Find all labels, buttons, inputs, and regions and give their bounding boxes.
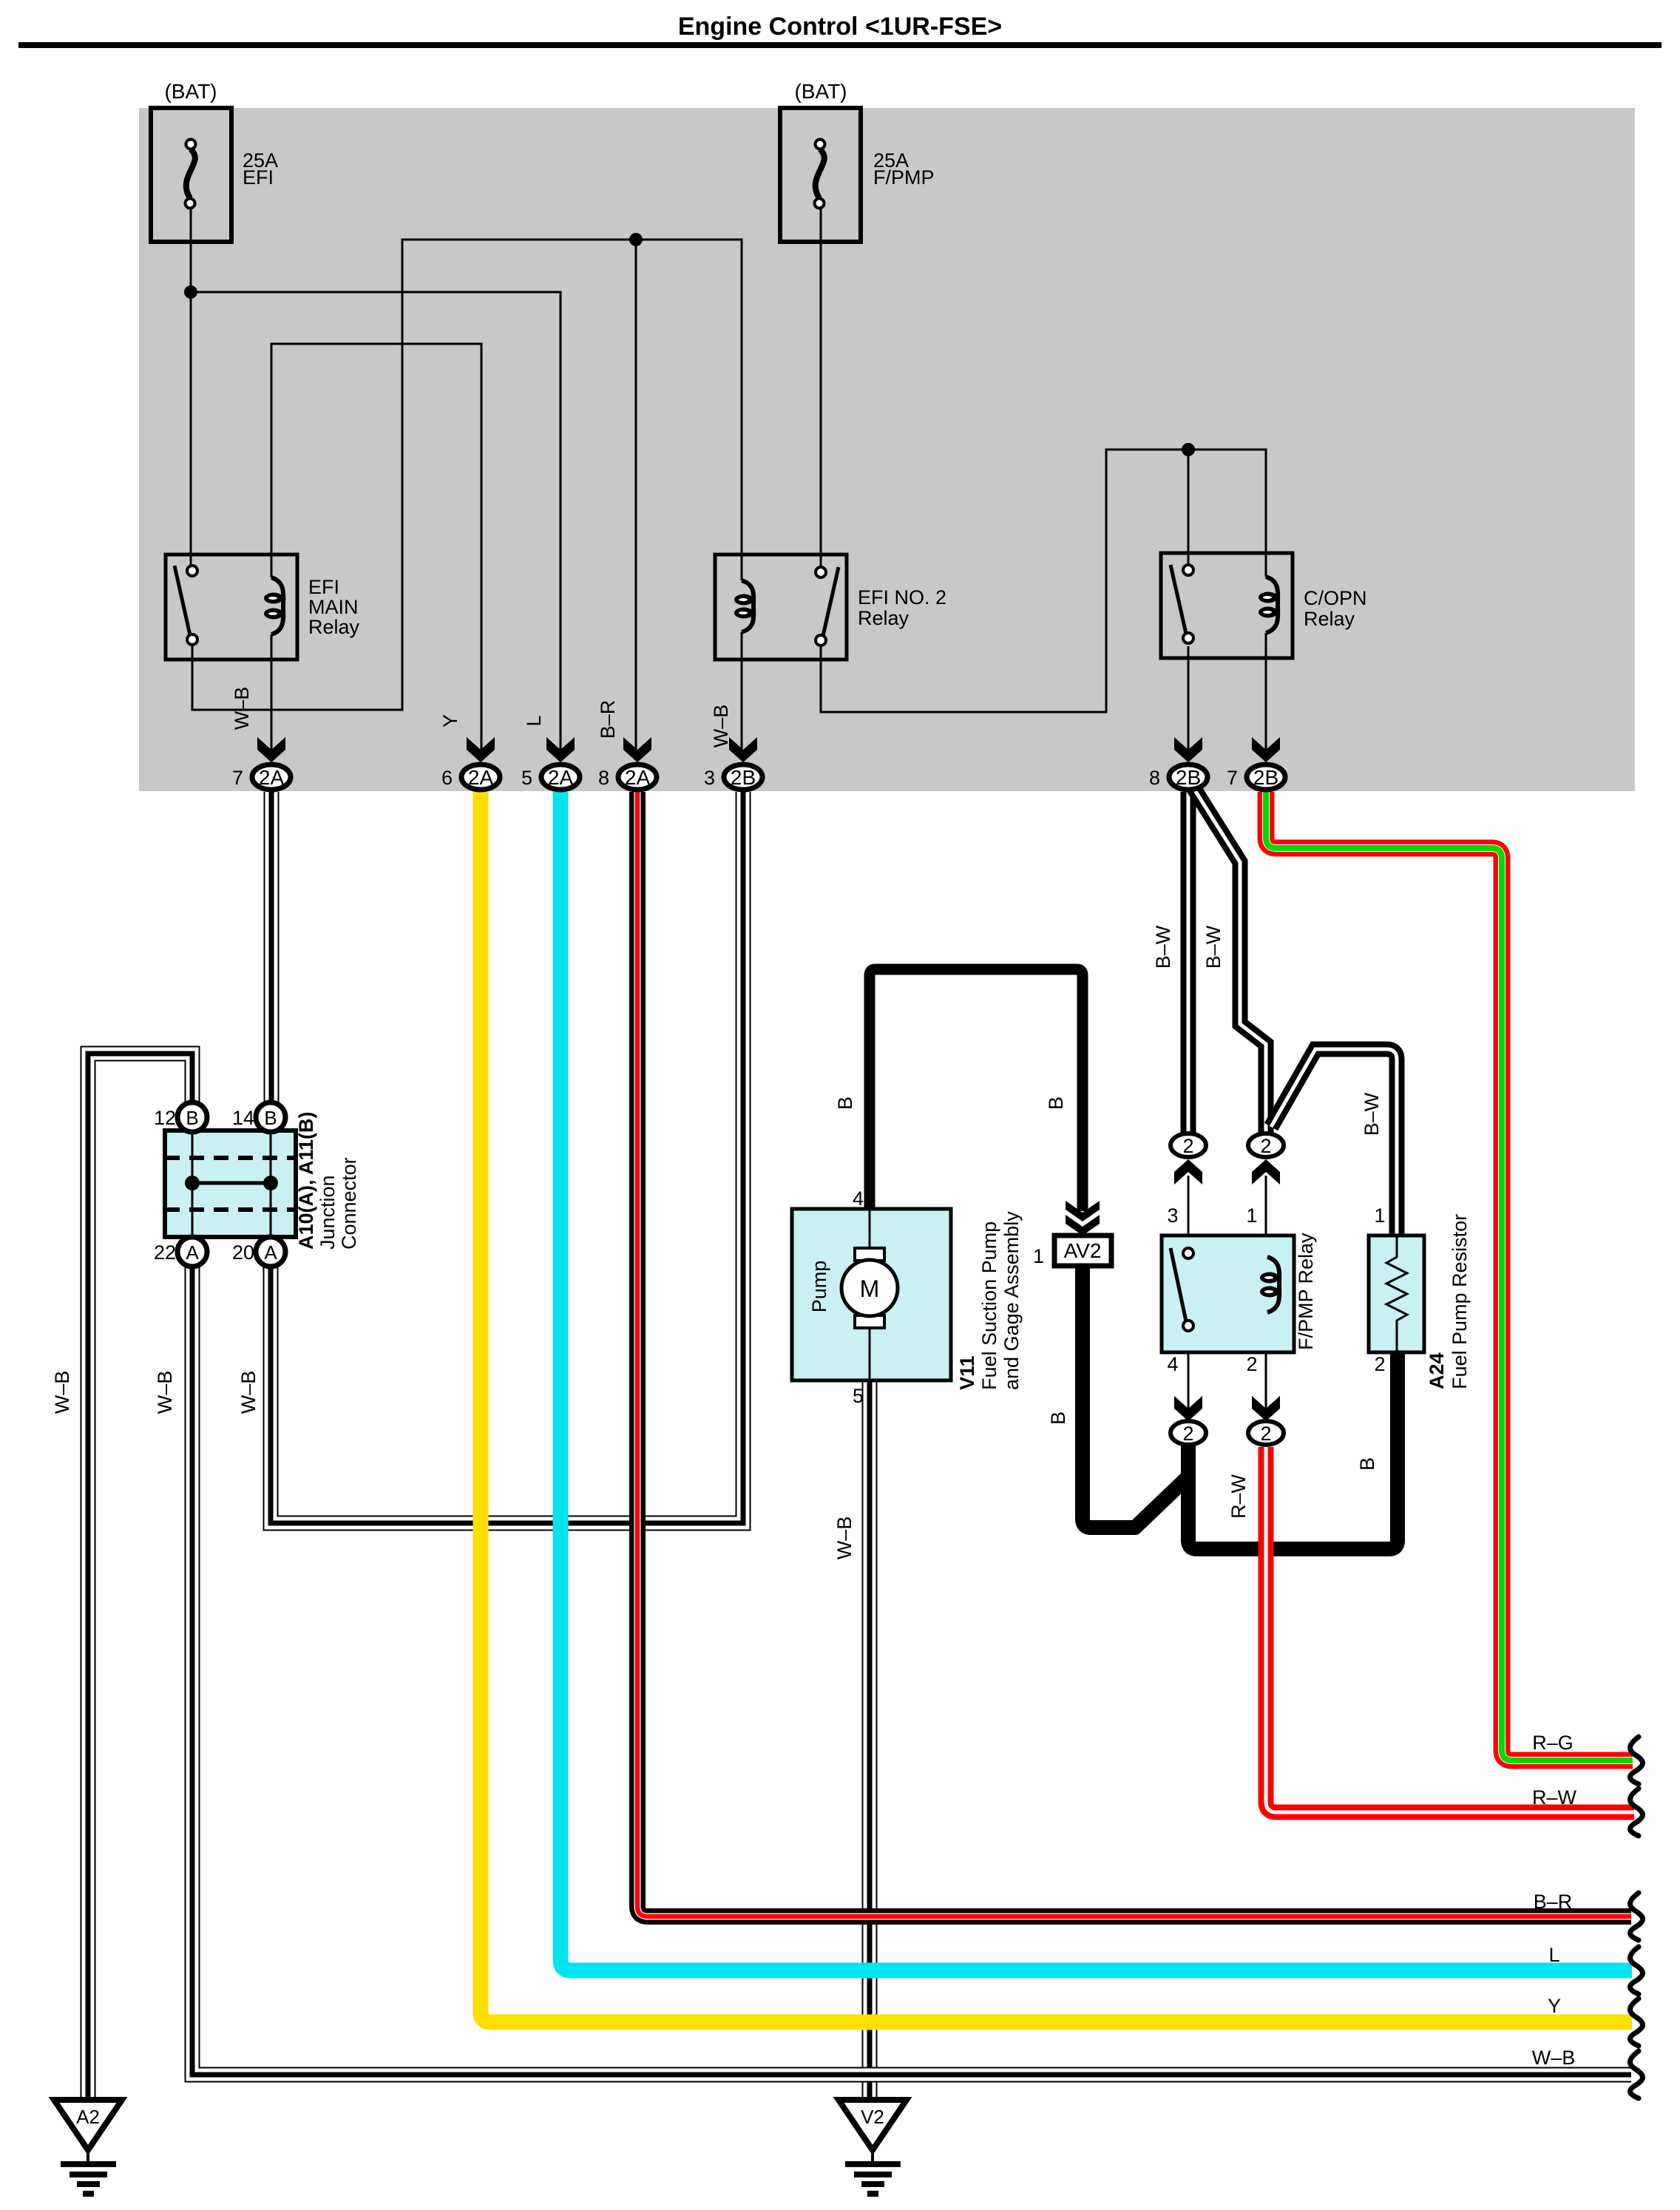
svg-text:R–G: R–G xyxy=(1532,1732,1574,1754)
node: junction dot below EFI fuse xyxy=(184,285,197,299)
connector 7/2A with arrow xyxy=(257,737,285,762)
wire: F/PMP fuse down to EFI NO.2 switch xyxy=(820,207,822,572)
resistor zigzag xyxy=(1386,1236,1407,1352)
V11 fuel suction pump box xyxy=(792,1209,951,1380)
F/PMP relay: switch xyxy=(1171,1248,1186,1321)
svg-text:MAIN: MAIN xyxy=(308,596,359,618)
svg-text:5: 5 xyxy=(521,767,532,789)
svg-text:A10(A), A11(B): A10(A), A11(B) xyxy=(295,1111,317,1250)
svg-text:8: 8 xyxy=(598,767,609,789)
wire R-W: F/PMP pin2 oval down and right to continuation xyxy=(1266,1447,1634,1812)
wire R-G: 7/2B down, right, down, right to continuation xyxy=(1266,792,1633,1760)
junction connector: dashed bus rows xyxy=(165,1156,296,1160)
svg-text:W–B: W–B xyxy=(231,687,253,731)
wire B (thick): pump pin4 loop to AV2 xyxy=(870,969,1083,1213)
junction connector: solid bus with nodes xyxy=(192,1182,271,1185)
F/PMP relay: pin ovals "2" xyxy=(1171,1133,1206,1157)
relay EFI NO.2: switch xyxy=(823,567,839,636)
ground V2 xyxy=(839,2100,907,2150)
svg-text:2A: 2A xyxy=(468,766,494,789)
continuation brace B-R xyxy=(1630,1893,1643,1940)
svg-text:2: 2 xyxy=(1182,1135,1193,1157)
relay C/OPN: box xyxy=(1161,553,1293,658)
wire: drop to C/OPN switch xyxy=(1188,450,1190,570)
svg-text:Fuel Pump Resistor: Fuel Pump Resistor xyxy=(1449,1214,1471,1389)
svg-text:F/PMP: F/PMP xyxy=(873,166,935,189)
continuation brace L xyxy=(1630,1947,1643,1994)
wire B-W: 8/2B diagonal branch down to F/PMP pin1 oval xyxy=(1193,787,1266,1133)
svg-text:A: A xyxy=(264,1241,277,1264)
svg-text:3: 3 xyxy=(704,767,715,789)
svg-text:L: L xyxy=(523,715,545,726)
svg-text:EFI NO. 2: EFI NO. 2 xyxy=(858,586,946,609)
svg-text:R–W: R–W xyxy=(1227,1474,1250,1519)
svg-text:2: 2 xyxy=(1260,1135,1271,1157)
wire W-B: 7/2A to junction B(14) xyxy=(264,792,280,1105)
svg-text:2B: 2B xyxy=(731,766,756,789)
wire B-R: 8/2A down and right to continuation xyxy=(637,792,1631,1916)
svg-text:and Gage Assembly: and Gage Assembly xyxy=(1000,1211,1023,1390)
junction connector A10(A), A11(B): box xyxy=(165,1131,296,1237)
node: junction dot on B-R feed xyxy=(629,233,643,246)
wire: fuse EFI output down to EFI MAIN relay switch xyxy=(190,209,192,571)
wire W-B: junction A(22) down, along bottom to right continuation xyxy=(192,1264,1631,2075)
svg-text:2: 2 xyxy=(1374,1353,1385,1375)
svg-text:2: 2 xyxy=(1182,1423,1193,1445)
wire B (thick): F/PMP pin4 oval down, right, up to resistor pin2 xyxy=(1188,1352,1398,1549)
svg-text:B: B xyxy=(1045,1096,1067,1110)
svg-text:AV2: AV2 xyxy=(1064,1239,1102,1262)
wire: EFI MAIN switch out loop to EFI NO.2 coil xyxy=(192,240,742,710)
connector 6/2A with arrow xyxy=(467,737,495,762)
svg-text:V11: V11 xyxy=(956,1355,978,1390)
wire: C/OPN switch down to 8/2B xyxy=(1188,646,1190,750)
relay C/OPN: coil xyxy=(1259,577,1278,633)
svg-text:Connector: Connector xyxy=(338,1157,360,1250)
svg-text:7: 7 xyxy=(1227,767,1238,789)
wire B-W: 8/2B down to F/PMP pin3 oval xyxy=(1181,792,1196,1133)
svg-text:B: B xyxy=(186,1107,198,1129)
title rule xyxy=(18,42,1662,48)
wire: EFI MAIN coil feed from 6/2A drop xyxy=(271,344,481,750)
svg-text:B: B xyxy=(1356,1457,1378,1471)
svg-text:W–B: W–B xyxy=(237,1371,260,1414)
svg-text:C/OPN: C/OPN xyxy=(1304,587,1367,609)
svg-text:2: 2 xyxy=(1246,1353,1257,1375)
svg-text:V2: V2 xyxy=(861,2106,884,2128)
svg-text:W–B: W–B xyxy=(710,705,732,748)
wire B-W: F/PMP pin1 oval up-right to fuel pump resistor pin1 xyxy=(1271,1049,1397,1236)
svg-text:2: 2 xyxy=(1260,1423,1271,1445)
svg-text:B: B xyxy=(264,1107,277,1129)
svg-text:2B: 2B xyxy=(1176,766,1201,789)
connector 3/2B with arrow xyxy=(729,737,757,762)
relay EFI MAIN: coil xyxy=(264,577,283,634)
continuation brace R-W xyxy=(1630,1789,1643,1836)
F/PMP relay: pin leads xyxy=(1188,1176,1190,1253)
wire L: 5/2A down and right to continuation xyxy=(560,792,1632,1970)
svg-text:2A: 2A xyxy=(259,766,285,789)
svg-text:M: M xyxy=(860,1275,880,1302)
svg-text:B: B xyxy=(1047,1411,1069,1425)
svg-text:B–W: B–W xyxy=(1361,1092,1383,1136)
svg-text:Pump: Pump xyxy=(808,1261,830,1313)
AV2 connector box xyxy=(1054,1236,1111,1266)
svg-text:(BAT): (BAT) xyxy=(164,80,217,103)
svg-text:8: 8 xyxy=(1149,767,1160,789)
wire: drop to 8/2A (B-R) xyxy=(635,240,637,750)
svg-text:B–R: B–R xyxy=(1534,1891,1573,1913)
motor M xyxy=(841,1260,898,1316)
F/PMP relay: box xyxy=(1162,1236,1294,1352)
svg-text:2B: 2B xyxy=(1253,766,1278,789)
wire: C/OPN coil down to 7/2B xyxy=(1265,633,1267,750)
svg-text:Relay: Relay xyxy=(858,607,910,629)
fuse 25A F/PMP xyxy=(780,108,861,242)
svg-text:20: 20 xyxy=(232,1241,254,1264)
svg-text:W–B: W–B xyxy=(51,1371,73,1414)
svg-text:Junction: Junction xyxy=(316,1175,339,1250)
gray panel background xyxy=(139,108,1635,791)
connector 7/2B with arrow xyxy=(1252,737,1280,762)
wire W-B: pump pin5 down to ground V2 xyxy=(862,1380,878,2098)
junction connector: pin circles B12 B14 A22 A20 xyxy=(177,1102,207,1132)
svg-text:B–R: B–R xyxy=(597,700,619,739)
svg-text:Fuel Suction Pump: Fuel Suction Pump xyxy=(978,1221,1000,1390)
svg-text:2A: 2A xyxy=(625,766,651,789)
svg-text:B–W: B–W xyxy=(1152,925,1174,969)
svg-text:Relay: Relay xyxy=(1304,608,1355,630)
junction connector: internal pass-through lines xyxy=(192,1131,194,1237)
continuation brace W-B xyxy=(1630,2051,1643,2098)
connector 8/2B with arrow xyxy=(1174,737,1202,762)
svg-text:EFI: EFI xyxy=(243,166,274,189)
svg-text:12: 12 xyxy=(154,1107,176,1129)
wire: horizontal from EFI fuse node to 5/2A drop xyxy=(191,292,560,750)
svg-text:R–W: R–W xyxy=(1532,1786,1577,1809)
continuation brace R-G xyxy=(1630,1737,1643,1784)
wire W-B: 3/2B down, left, up to junction A(20) xyxy=(271,792,743,1523)
svg-text:(BAT): (BAT) xyxy=(794,80,847,103)
svg-text:Engine Control <1UR-FSE>: Engine Control <1UR-FSE> xyxy=(678,13,1002,41)
motor brushes xyxy=(855,1248,884,1261)
svg-text:3: 3 xyxy=(1167,1204,1178,1227)
wire: EFI MAIN coil down to 7/2A xyxy=(271,634,273,750)
connector 8/2A with arrow xyxy=(623,737,651,762)
svg-text:1: 1 xyxy=(1374,1204,1385,1227)
wire Y: 6/2A down and right to continuation xyxy=(481,792,1632,2022)
svg-text:W–B: W–B xyxy=(154,1371,176,1414)
F/PMP relay: arrows into pin ovals xyxy=(1174,1159,1202,1184)
relay EFI NO.2: box xyxy=(715,555,847,660)
A24 fuel pump resistor: box xyxy=(1369,1236,1424,1352)
svg-text:B–W: B–W xyxy=(1202,925,1225,969)
svg-text:Relay: Relay xyxy=(308,616,360,638)
svg-text:A2: A2 xyxy=(76,2106,100,2128)
ground A2 xyxy=(54,2100,122,2150)
relay C/OPN: switch xyxy=(1171,565,1186,634)
pump motor leads xyxy=(869,1209,871,1257)
svg-text:Y: Y xyxy=(1548,1995,1561,2017)
svg-text:4: 4 xyxy=(1167,1353,1178,1375)
svg-text:A: A xyxy=(186,1241,199,1264)
wire W-B: junction B(12) up/left/down to ground A2 xyxy=(88,1054,192,2098)
F/PMP relay: coil xyxy=(1260,1257,1279,1312)
svg-text:B: B xyxy=(834,1096,856,1110)
svg-text:L: L xyxy=(1548,1944,1559,1966)
wire B (thick): AV2 down, right, diagonal up to F/PMP pin4 oval xyxy=(1083,1266,1187,1528)
svg-text:A24: A24 xyxy=(1426,1352,1448,1389)
relay EFI MAIN: box xyxy=(166,555,297,660)
svg-text:W–B: W–B xyxy=(833,1516,856,1560)
svg-text:22: 22 xyxy=(154,1241,176,1264)
AV2 connector arrows xyxy=(1066,1201,1100,1221)
fuse 25A EFI xyxy=(151,108,231,242)
node: junction dot above C/OPN relay xyxy=(1182,443,1195,456)
svg-text:1: 1 xyxy=(1246,1204,1257,1227)
connector 5/2A with arrow xyxy=(546,737,575,762)
svg-text:F/PMP Relay: F/PMP Relay xyxy=(1295,1233,1317,1350)
relay EFI MAIN: switch xyxy=(175,566,190,635)
svg-text:4: 4 xyxy=(853,1187,864,1210)
svg-text:6: 6 xyxy=(441,767,453,789)
wire: EFI NO.2 coil down to 3/2B xyxy=(741,632,743,750)
svg-text:1: 1 xyxy=(1033,1245,1044,1267)
svg-text:W–B: W–B xyxy=(1532,2047,1576,2069)
continuation brace Y xyxy=(1630,1999,1643,2046)
svg-text:EFI: EFI xyxy=(308,576,339,598)
relay EFI NO.2: coil xyxy=(734,580,753,632)
svg-text:Y: Y xyxy=(439,714,461,728)
svg-text:2A: 2A xyxy=(548,766,574,789)
svg-text:7: 7 xyxy=(232,767,243,789)
svg-text:5: 5 xyxy=(853,1385,864,1407)
svg-text:14: 14 xyxy=(232,1107,254,1129)
wire: EFI NO.2 switch out to C/OPN relay feeds xyxy=(821,450,1266,712)
